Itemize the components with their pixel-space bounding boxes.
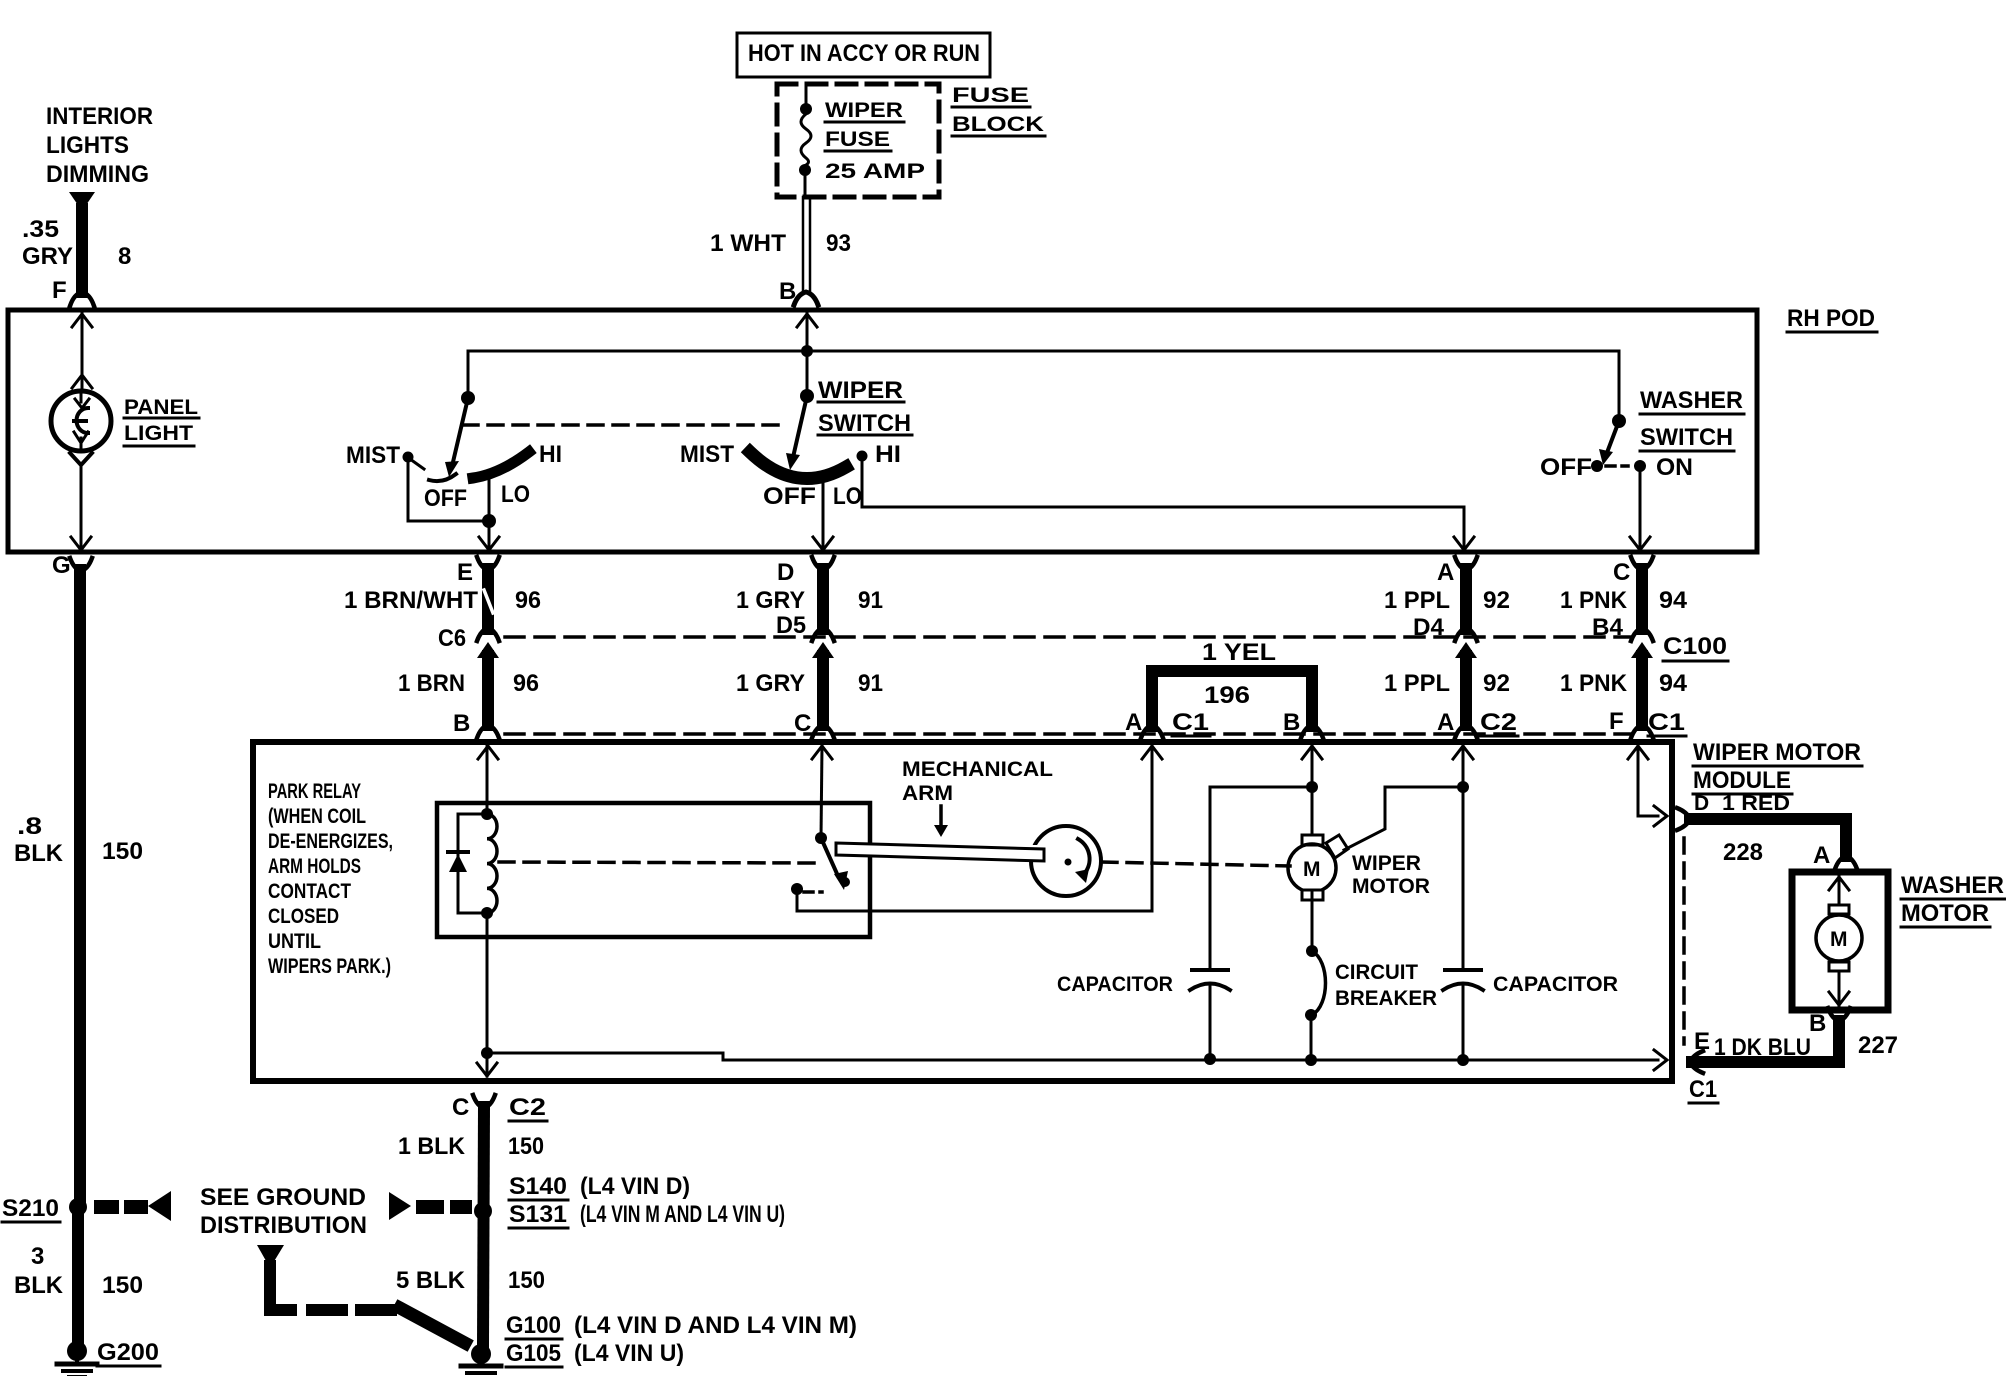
svg-text:CAPACITOR: CAPACITOR bbox=[1057, 973, 1173, 996]
svg-text:S140: S140 bbox=[509, 1173, 567, 1200]
svg-text:CAPACITOR: CAPACITOR bbox=[1493, 973, 1618, 996]
svg-text:1 BRN: 1 BRN bbox=[398, 670, 465, 697]
svg-text:OFF: OFF bbox=[1540, 454, 1592, 481]
svg-text:MIST: MIST bbox=[346, 442, 400, 469]
wire 1 PPL 92 pin A C2 bbox=[1384, 656, 1518, 738]
svg-text:1 PPL: 1 PPL bbox=[1384, 670, 1450, 697]
svg-text:SWITCH: SWITCH bbox=[1640, 424, 1733, 451]
svg-text:CLOSED: CLOSED bbox=[268, 905, 339, 928]
svg-text:92: 92 bbox=[1483, 670, 1510, 697]
svg-text:MOTOR: MOTOR bbox=[1352, 875, 1430, 898]
wire 1 PPL 92 pin A bbox=[1384, 557, 1510, 629]
wire .35 GRY 8 bbox=[22, 209, 131, 292]
svg-text:S210: S210 bbox=[2, 1195, 59, 1222]
wire .8 BLK 150 pin G bbox=[14, 552, 143, 1198]
svg-text:WIPER: WIPER bbox=[1352, 852, 1421, 875]
svg-text:150: 150 bbox=[102, 1272, 143, 1299]
svg-text:C100: C100 bbox=[1663, 633, 1727, 660]
svg-text:A: A bbox=[1437, 709, 1454, 736]
node HOT IN ACCY OR RUN box bbox=[737, 33, 990, 77]
svg-text:WASHER: WASHER bbox=[1901, 872, 2004, 899]
node FUSE BLOCK label bbox=[952, 84, 1045, 136]
wire ground distribution dashed route bbox=[270, 1266, 465, 1343]
crank circle bbox=[1026, 826, 1101, 896]
svg-text:150: 150 bbox=[508, 1267, 545, 1294]
svg-text:INTERIOR: INTERIOR bbox=[46, 103, 153, 130]
wire park contact to pin A C1 bbox=[797, 746, 1162, 911]
svg-text:1 GRY: 1 GRY bbox=[736, 670, 805, 697]
capacitor C2 right bbox=[1443, 970, 1618, 1066]
svg-text:C2: C2 bbox=[509, 1094, 546, 1121]
ground G105 symbol bbox=[461, 1344, 501, 1376]
wire mechanical link dashed bbox=[463, 423, 788, 427]
svg-text:MODULE: MODULE bbox=[1693, 767, 1791, 794]
capacitor C1 left bbox=[1057, 970, 1230, 1065]
mechanical arm bar bbox=[836, 843, 1044, 861]
svg-text:RH POD: RH POD bbox=[1787, 305, 1875, 332]
svg-text:25 AMP: 25 AMP bbox=[825, 160, 925, 183]
svg-text:S131: S131 bbox=[509, 1201, 567, 1228]
wire panel light to G bbox=[71, 465, 91, 550]
svg-text:E: E bbox=[457, 559, 473, 586]
wire left switch output to E bbox=[408, 462, 499, 550]
svg-text:BLK: BLK bbox=[14, 840, 64, 867]
connector D5 inline bbox=[776, 612, 834, 658]
wire 1 BLK 150 bbox=[398, 1107, 544, 1345]
svg-text:150: 150 bbox=[508, 1133, 544, 1160]
ground G200 bbox=[57, 1339, 160, 1376]
wire module pin C entry to park contact arm bbox=[812, 746, 832, 844]
svg-text:227: 227 bbox=[1858, 1032, 1898, 1059]
svg-text:WIPER: WIPER bbox=[818, 377, 903, 404]
svg-text:1 RED: 1 RED bbox=[1722, 792, 1790, 815]
svg-text:DISTRIBUTION: DISTRIBUTION bbox=[200, 1212, 367, 1239]
svg-text:MOTOR: MOTOR bbox=[1901, 900, 1989, 927]
splice S140 S131 bbox=[389, 1173, 785, 1228]
svg-text:ON: ON bbox=[1656, 454, 1693, 481]
svg-text:C6: C6 bbox=[438, 625, 466, 652]
svg-text:HOT IN ACCY OR RUN: HOT IN ACCY OR RUN bbox=[748, 40, 980, 67]
wire washer ON output to C bbox=[1630, 466, 1650, 550]
svg-text:DIMMING: DIMMING bbox=[46, 161, 149, 188]
svg-text:1 DK BLU: 1 DK BLU bbox=[1714, 1034, 1811, 1061]
wire module pin B yel entry to motor bbox=[1302, 746, 1322, 836]
svg-text:PANEL: PANEL bbox=[124, 396, 198, 419]
svg-text:OFF: OFF bbox=[424, 485, 467, 512]
node G100 G105 labels bbox=[506, 1312, 857, 1367]
svg-text:F: F bbox=[52, 277, 67, 304]
svg-text:(L4 VIN D): (L4 VIN D) bbox=[580, 1173, 690, 1200]
wire motor to A C2 feed bbox=[1344, 781, 1469, 850]
node WASHER SWITCH label bbox=[1640, 387, 1744, 451]
fuse F1 WIPER FUSE 25 AMP bbox=[799, 84, 925, 197]
wire coil to ground bus bbox=[477, 913, 497, 1076]
svg-text:ARM: ARM bbox=[902, 782, 953, 805]
svg-text:CIRCUIT: CIRCUIT bbox=[1335, 961, 1418, 984]
wire 1 RED 228 pin D bbox=[1677, 792, 1857, 869]
node MECHANICAL ARM label bbox=[902, 758, 1053, 837]
wire washer switch feed bbox=[1612, 351, 1626, 428]
svg-text:1 BRN/WHT: 1 BRN/WHT bbox=[344, 587, 478, 614]
svg-text:5 BLK: 5 BLK bbox=[396, 1267, 466, 1294]
svg-text:196: 196 bbox=[1204, 682, 1250, 709]
svg-text:BREAKER: BREAKER bbox=[1335, 987, 1437, 1010]
diode CR1 across coil bbox=[448, 814, 487, 913]
svg-text:FUSE: FUSE bbox=[952, 84, 1029, 107]
wire 1 GRY 91 pin C bbox=[736, 656, 883, 738]
wire 1 DK BLU 227 pin B to E bbox=[1689, 1008, 1898, 1103]
svg-text:(L4 VIN D AND L4 VIN M): (L4 VIN D AND L4 VIN M) bbox=[574, 1312, 857, 1339]
svg-text:C2: C2 bbox=[1480, 709, 1517, 736]
svg-text:LO: LO bbox=[501, 481, 530, 508]
svg-text:D: D bbox=[777, 559, 794, 586]
wire HI output to A bbox=[862, 456, 1474, 550]
svg-text:(L4 VIN U): (L4 VIN U) bbox=[574, 1340, 684, 1367]
svg-text:A: A bbox=[1125, 709, 1142, 736]
switch wiper main arm (right) bbox=[786, 396, 807, 470]
note PARK RELAY text block bbox=[268, 780, 393, 978]
svg-text:OFF: OFF bbox=[763, 483, 816, 510]
pin F connector bbox=[52, 277, 94, 306]
switch park relay contact arm bbox=[791, 838, 850, 895]
node INTERIOR LIGHTS DIMMING bbox=[46, 103, 153, 211]
note SEE GROUND DISTRIBUTION bbox=[200, 1184, 367, 1268]
wire wiper switch feed from B bbox=[797, 314, 817, 403]
wire module pin B entry bbox=[478, 746, 498, 812]
pin B connector at RH POD top bbox=[779, 278, 818, 305]
svg-text:92: 92 bbox=[1483, 587, 1510, 614]
svg-text:LO: LO bbox=[833, 483, 862, 510]
svg-text:GRY: GRY bbox=[22, 243, 73, 270]
svg-text:MECHANICAL: MECHANICAL bbox=[902, 758, 1053, 781]
svg-text:.35: .35 bbox=[22, 216, 59, 243]
wire LO output to D bbox=[813, 481, 833, 550]
svg-text:91: 91 bbox=[858, 670, 883, 697]
svg-text:B: B bbox=[1809, 1010, 1826, 1037]
wire 5 BLK 150 bbox=[396, 1267, 545, 1294]
svg-text:D5: D5 bbox=[776, 612, 806, 639]
connector B4 C100 inline bbox=[1592, 614, 1728, 661]
svg-text:8: 8 bbox=[118, 243, 131, 270]
svg-text:228: 228 bbox=[1723, 839, 1763, 866]
svg-text:93: 93 bbox=[826, 230, 851, 257]
dashed linkage crank to motor bbox=[1102, 862, 1290, 866]
svg-text:1 WHT: 1 WHT bbox=[710, 230, 786, 257]
motor M2 washer motor bbox=[1816, 877, 1862, 1005]
svg-text:1 YEL: 1 YEL bbox=[1202, 639, 1276, 666]
wire 1 PNK 94 pin F C1 bbox=[1560, 656, 1688, 738]
connector C1 dashed boundary right of module bbox=[1682, 838, 1686, 1044]
svg-text:SEE GROUND: SEE GROUND bbox=[200, 1184, 366, 1211]
wire 1 BRN/WHT 96 pin E bbox=[344, 557, 541, 629]
connector dashed line C1 C2 C100 row bbox=[505, 732, 1632, 736]
svg-text:A: A bbox=[1437, 559, 1454, 586]
svg-text:CONTACT: CONTACT bbox=[268, 880, 351, 903]
svg-text:F: F bbox=[1609, 708, 1624, 735]
wire module pin F C1 entry to D exit bbox=[1628, 746, 1667, 826]
relay coil L1 bbox=[481, 808, 497, 919]
svg-text:(WHEN COIL: (WHEN COIL bbox=[268, 805, 366, 828]
svg-text:PARK RELAY: PARK RELAY bbox=[268, 780, 361, 803]
svg-text:91: 91 bbox=[858, 587, 883, 614]
svg-text:G100: G100 bbox=[506, 1312, 561, 1339]
svg-text:C: C bbox=[794, 710, 811, 737]
svg-text:M: M bbox=[1830, 928, 1848, 951]
relay park relay box bbox=[437, 803, 870, 937]
wire switch feed bus y351 bbox=[461, 351, 1619, 405]
wire 3 BLK 150 to G200 bbox=[14, 1207, 143, 1340]
wire 1 WHT 93 double line bbox=[710, 197, 851, 292]
module WIPER MOTOR MODULE box bbox=[253, 739, 1862, 1081]
wire 1 YEL 196 jumper loop bbox=[1125, 639, 1323, 738]
wire 1 PNK 94 pin C bbox=[1560, 557, 1688, 629]
svg-text:1 PNK: 1 PNK bbox=[1560, 670, 1628, 697]
svg-text:96: 96 bbox=[515, 587, 541, 614]
svg-text:D4: D4 bbox=[1413, 614, 1445, 641]
svg-text:UNTIL: UNTIL bbox=[268, 930, 321, 953]
svg-text:HI: HI bbox=[539, 441, 562, 468]
lamp panel light bbox=[51, 391, 199, 465]
connector C6 inline bbox=[438, 625, 499, 658]
motor M1 wiper motor bbox=[1288, 835, 1430, 900]
svg-text:C1: C1 bbox=[1172, 709, 1209, 736]
connector C C2 below module bbox=[452, 1094, 547, 1121]
svg-text:BLK: BLK bbox=[14, 1272, 64, 1299]
svg-text:C: C bbox=[1613, 559, 1630, 586]
svg-text:BLOCK: BLOCK bbox=[952, 113, 1044, 136]
svg-text:(L4 VIN M AND L4 VIN U): (L4 VIN M AND L4 VIN U) bbox=[580, 1201, 785, 1228]
svg-text:1 BLK: 1 BLK bbox=[398, 1133, 466, 1160]
svg-text:3: 3 bbox=[31, 1243, 44, 1270]
switch pod RH POD box bbox=[8, 305, 1877, 552]
svg-text:B: B bbox=[453, 710, 470, 737]
svg-text:G200: G200 bbox=[97, 1339, 159, 1366]
svg-text:LIGHT: LIGHT bbox=[124, 422, 193, 445]
svg-text:FUSE: FUSE bbox=[825, 128, 890, 151]
svg-text:ARM HOLDS: ARM HOLDS bbox=[268, 855, 361, 878]
svg-text:LIGHTS: LIGHTS bbox=[46, 132, 129, 159]
switch right MIST OFF LO HI contacts bbox=[680, 441, 901, 510]
wire ground bus inside module bbox=[487, 1050, 1667, 1070]
svg-text:A: A bbox=[1813, 842, 1830, 869]
svg-text:WIPER: WIPER bbox=[825, 99, 903, 122]
svg-text:WASHER: WASHER bbox=[1640, 387, 1743, 414]
wire 1 BRN 96 pin B bbox=[398, 656, 539, 738]
svg-text:C1: C1 bbox=[1689, 1076, 1717, 1103]
svg-text:MIST: MIST bbox=[680, 441, 734, 468]
svg-text:G: G bbox=[52, 552, 71, 579]
svg-text:E: E bbox=[1694, 1028, 1710, 1055]
connector dashed line C6 D5 D4 B4 bbox=[505, 635, 1632, 639]
switch wiper dimmer arm (left) bbox=[445, 398, 468, 477]
svg-text:G105: G105 bbox=[506, 1340, 561, 1367]
svg-text:WIPER MOTOR: WIPER MOTOR bbox=[1693, 739, 1861, 766]
svg-text:94: 94 bbox=[1659, 587, 1688, 614]
svg-text:96: 96 bbox=[513, 670, 539, 697]
svg-text:1 GRY: 1 GRY bbox=[736, 587, 805, 614]
wire motor junction to left capacitor bbox=[1210, 787, 1312, 968]
circuit breaker CB1 bbox=[1305, 892, 1437, 1066]
svg-text:150: 150 bbox=[102, 838, 143, 865]
dashed linkage coil to arm bbox=[499, 862, 814, 863]
svg-text:94: 94 bbox=[1659, 670, 1688, 697]
svg-text:C1: C1 bbox=[1648, 709, 1685, 736]
svg-text:SWITCH: SWITCH bbox=[818, 410, 911, 437]
svg-text:.8: .8 bbox=[17, 813, 42, 840]
svg-text:1 PPL: 1 PPL bbox=[1384, 587, 1450, 614]
switch washer arm bbox=[1540, 421, 1693, 481]
connector D4 inline bbox=[1413, 614, 1477, 658]
svg-text:HI: HI bbox=[875, 441, 901, 468]
svg-text:D: D bbox=[1694, 792, 1709, 815]
svg-text:WIPERS PARK.): WIPERS PARK.) bbox=[268, 955, 391, 978]
svg-text:C: C bbox=[452, 1094, 469, 1121]
splice S210 bbox=[2, 1191, 171, 1222]
switch left MIST OFF LO HI contacts bbox=[346, 441, 562, 512]
wire panel light feed bbox=[72, 314, 92, 390]
washer motor box bbox=[1792, 872, 2005, 1010]
svg-text:M: M bbox=[1303, 858, 1321, 881]
wire 1 GRY 91 pin D bbox=[736, 557, 883, 629]
svg-text:1 PNK: 1 PNK bbox=[1560, 587, 1628, 614]
node WIPER SWITCH label bbox=[818, 377, 912, 437]
svg-text:DE-ENERGIZES,: DE-ENERGIZES, bbox=[268, 830, 393, 853]
svg-text:B4: B4 bbox=[1592, 614, 1624, 641]
fuse block dashed box bbox=[777, 84, 939, 197]
wire module pin A C2 entry bbox=[1453, 746, 1473, 968]
svg-text:B: B bbox=[1283, 709, 1300, 736]
